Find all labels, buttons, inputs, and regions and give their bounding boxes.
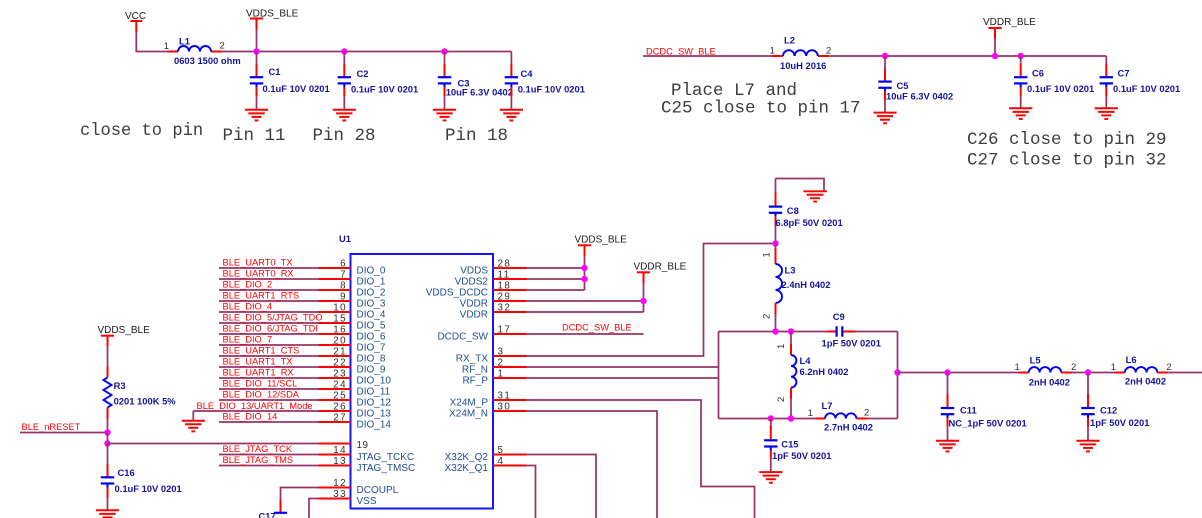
svg-text:DIO_12: DIO_12 [357, 397, 392, 408]
pin 16 (DIO_6) left of U1 [319, 325, 386, 343]
svg-text:DIO_8: DIO_8 [357, 353, 386, 364]
svg-text:DIO_3: DIO_3 [357, 298, 386, 309]
power symbol VCC [125, 11, 146, 32]
svg-text:BLE_DIO_2: BLE_DIO_2 [223, 280, 273, 290]
junction node C8/L3 [772, 240, 778, 246]
svg-text:BLE_JTAG_TCK: BLE_JTAG_TCK [223, 444, 293, 454]
capacitor C12 [1081, 373, 1149, 441]
svg-text:DIO_13: DIO_13 [357, 408, 392, 419]
svg-text:RF_P: RF_P [462, 375, 488, 386]
wire X24M_N [527, 411, 658, 518]
inductor L5 [1015, 354, 1077, 387]
svg-text:L1: L1 [179, 36, 190, 47]
junction node RF out [894, 369, 900, 375]
svg-text:DCDC_SW_BLE: DCDC_SW_BLE [562, 323, 632, 333]
pin 27 (DIO_14) left of U1 [319, 413, 392, 431]
svg-text:1: 1 [770, 46, 775, 57]
junction node pin19 [104, 440, 110, 446]
capacitor C4 [505, 52, 585, 110]
ground C11 [936, 441, 959, 452]
svg-text:26: 26 [333, 402, 347, 413]
svg-text:close to pin: close to pin [80, 122, 203, 141]
wire L2 to C7 [829, 55, 1106, 57]
pin 32 (VDDR) right of U1 [460, 303, 527, 321]
wire+net label BLE_JTAG_TMS [219, 455, 319, 465]
svg-text:2.7nH 0402: 2.7nH 0402 [824, 421, 873, 432]
junction node C15 [768, 415, 774, 421]
svg-text:L3: L3 [785, 265, 796, 276]
svg-text:DCDC_SW_BLE: DCDC_SW_BLE [646, 47, 716, 57]
svg-text:1pF 50V 0201: 1pF 50V 0201 [772, 450, 831, 461]
svg-text:RX_TX: RX_TX [456, 353, 489, 364]
svg-text:10uH 2016: 10uH 2016 [780, 60, 826, 71]
ground C15 [759, 472, 782, 483]
comment Pin 28 [313, 126, 376, 146]
svg-text:C26 close to pin 29: C26 close to pin 29 [967, 130, 1167, 150]
wire RF out to L5 [898, 372, 1019, 374]
svg-text:DCOUPL: DCOUPL [357, 485, 399, 496]
svg-text:VDDR_BLE: VDDR_BLE [983, 17, 1036, 28]
pin 6 (DIO_0) left of U1 [319, 259, 386, 277]
svg-text:DIO_10: DIO_10 [357, 375, 392, 386]
junction node L4 top [788, 328, 794, 334]
svg-text:X32K_Q1: X32K_Q1 [445, 463, 489, 474]
pin 30 (X24M_N) right of U1 [449, 402, 526, 420]
capacitor C17 [259, 510, 288, 518]
svg-text:DIO_6: DIO_6 [357, 331, 386, 342]
wire loop left [718, 332, 720, 419]
wire VDDR pins to rail [527, 283, 644, 312]
pin 8 (DIO_2) left of U1 [319, 281, 386, 299]
svg-text:X24M_P: X24M_P [450, 397, 489, 408]
svg-text:4: 4 [498, 456, 505, 467]
pin 4 (X32K_Q1) right of U1 [445, 456, 527, 474]
svg-text:6.8pF 50V 0201: 6.8pF 50V 0201 [776, 217, 843, 228]
wire+net label BLE_DIO_11/SCL [219, 379, 319, 389]
resistor R3 [104, 367, 177, 420]
junction node VDDS pin11 [581, 276, 587, 282]
comment C26 close to pin 29 [967, 130, 1167, 150]
inductor L1 [164, 36, 241, 67]
wire+net label BLE_DIO_14 [219, 412, 319, 422]
svg-text:C9: C9 [833, 311, 845, 322]
svg-text:0.1uF 10V 0201: 0.1uF 10V 0201 [351, 84, 418, 95]
svg-text:0.1uF 10V 0201: 0.1uF 10V 0201 [518, 84, 585, 95]
capacitor C3 [438, 52, 513, 110]
svg-text:C8: C8 [787, 205, 799, 216]
svg-text:U1: U1 [339, 233, 351, 244]
svg-text:32: 32 [498, 303, 512, 314]
junction node C2 [341, 48, 347, 54]
svg-text:14: 14 [333, 445, 347, 456]
svg-text:23: 23 [333, 369, 347, 380]
svg-text:10: 10 [333, 303, 347, 314]
ground C4 [500, 110, 523, 121]
svg-text:DIO_5: DIO_5 [357, 320, 386, 331]
svg-text:8: 8 [340, 281, 347, 292]
svg-text:0201 100K 5%: 0201 100K 5% [114, 396, 177, 407]
pin 15 (DIO_5) left of U1 [319, 314, 386, 332]
capacitor C16 [101, 444, 182, 511]
power symbol VDDS_BLE [246, 9, 299, 52]
svg-text:Pin 28: Pin 28 [313, 126, 376, 146]
pin 19 number inside box [357, 440, 369, 451]
pin 18 (VDDS_DCDC) right of U1 [426, 281, 527, 299]
svg-text:2: 2 [864, 408, 869, 419]
inductor L3 [762, 244, 831, 332]
svg-text:12: 12 [333, 478, 347, 489]
wire VSS down [309, 499, 319, 518]
svg-text:DIO_4: DIO_4 [357, 309, 386, 320]
svg-text:L2: L2 [784, 35, 795, 46]
svg-text:BLE_DIO_6/JTAG_TDI: BLE_DIO_6/JTAG_TDI [223, 324, 318, 334]
pin 22 (DIO_9) left of U1 [319, 358, 386, 376]
svg-text:BLE_DIO_4: BLE_DIO_4 [223, 302, 273, 312]
junction node C11 [944, 369, 950, 375]
junction node C1 [253, 48, 259, 54]
wire+net label BLE_UART1_TX [219, 357, 319, 367]
junction node L4 bottom [788, 415, 794, 421]
ground C7 [1095, 108, 1118, 119]
svg-text:Pin 18: Pin 18 [445, 126, 508, 146]
svg-text:C25 close to pin 17: C25 close to pin 17 [661, 99, 861, 119]
svg-text:VDDS_BLE: VDDS_BLE [575, 235, 628, 246]
junction node BLE_nRESET [104, 429, 110, 435]
pin 29 (VDDR) right of U1 [460, 292, 527, 310]
comment Place L7 and [671, 81, 797, 101]
pin 2 (RF_N) right of U1 [462, 358, 527, 376]
wire X32K_Q2 [527, 455, 597, 518]
svg-text:C7: C7 [1118, 68, 1130, 79]
svg-text:BLE_UART1_TX: BLE_UART1_TX [223, 357, 293, 367]
svg-text:20: 20 [333, 336, 347, 347]
svg-text:VDDS_DCDC: VDDS_DCDC [426, 287, 488, 298]
comment Pin 11 [223, 126, 286, 146]
svg-text:DCDC_SW: DCDC_SW [437, 331, 488, 342]
junction node C12 [1085, 369, 1091, 375]
pin 5 (X32K_Q2) right of U1 [445, 445, 527, 463]
pin 1 (RF_P) right of U1 [462, 369, 526, 387]
svg-text:2nH 0402: 2nH 0402 [1125, 376, 1166, 387]
wire RF_P [527, 377, 719, 379]
comment C27 close to pin 32 [967, 151, 1167, 171]
svg-text:VDDS: VDDS [460, 265, 488, 276]
pin 24 (DIO_11) left of U1 [319, 380, 391, 398]
wire RX_TX to C8 node [527, 244, 776, 357]
capacitor C6 [1014, 56, 1094, 108]
junction node C6 [1018, 53, 1024, 59]
junction node C3 [441, 48, 447, 54]
svg-text:X32K_Q2: X32K_Q2 [445, 452, 489, 463]
svg-text:2: 2 [220, 41, 225, 52]
pin 20 (DIO_7) left of U1 [319, 336, 386, 354]
wire+net label BLE_DIO_7 [219, 335, 319, 345]
wire+net label BLE_DIO_4 [219, 302, 319, 312]
wire+net label BLE_DIO_5/JTAG_TDO [219, 313, 323, 323]
svg-text:1pF 50V 0201: 1pF 50V 0201 [1090, 417, 1149, 428]
svg-text:VSS: VSS [357, 496, 377, 507]
svg-text:C12: C12 [1100, 405, 1117, 416]
capacitor C8 [769, 179, 843, 244]
svg-text:1pF 50V 0201: 1pF 50V 0201 [822, 337, 881, 348]
pin 28 (VDDS) right of U1 [460, 259, 526, 277]
svg-text:Pin 11: Pin 11 [223, 126, 286, 146]
svg-text:2: 2 [776, 397, 787, 402]
svg-text:18: 18 [498, 281, 512, 292]
comment close to pin [80, 122, 203, 141]
svg-text:DIO_0: DIO_0 [357, 265, 386, 276]
inductor L6 [1111, 354, 1172, 387]
svg-text:16: 16 [333, 325, 347, 336]
svg-text:BLE_UART0_RX: BLE_UART0_RX [223, 269, 294, 279]
ground C6 [1009, 108, 1032, 119]
svg-text:DIO_2: DIO_2 [357, 287, 386, 298]
svg-text:RF_N: RF_N [462, 364, 488, 375]
svg-text:VCC: VCC [125, 11, 146, 22]
pin 23 (DIO_10) left of U1 [319, 369, 392, 387]
svg-text:3: 3 [498, 347, 505, 358]
svg-text:5: 5 [498, 445, 505, 456]
wire VDDS pins to rail [527, 254, 585, 290]
wire+net label BLE_UART1_CTS [219, 346, 319, 356]
svg-text:6.2nH 0402: 6.2nH 0402 [800, 366, 849, 377]
wire X24M_P [527, 400, 755, 518]
capacitor C2 [338, 52, 419, 110]
svg-text:25: 25 [333, 391, 347, 402]
svg-text:BLE_DIO_5/JTAG_TDO: BLE_DIO_5/JTAG_TDO [223, 313, 323, 323]
svg-text:2.4nH 0402: 2.4nH 0402 [782, 279, 831, 290]
capacitor C15 [764, 419, 831, 473]
svg-text:BLE_DIO_7: BLE_DIO_7 [223, 335, 273, 345]
svg-text:C15: C15 [781, 439, 798, 450]
svg-text:0.1uF 10V 0201: 0.1uF 10V 0201 [263, 83, 330, 94]
ground C3 [433, 110, 456, 121]
net label BLE_nRESET [22, 422, 81, 432]
power symbol VDDR_BLE (top) [983, 17, 1036, 56]
svg-text:BLE_JTAG_TMS: BLE_JTAG_TMS [223, 455, 294, 465]
svg-text:9: 9 [340, 292, 347, 303]
svg-text:13: 13 [333, 456, 347, 467]
svg-text:DIO_7: DIO_7 [357, 342, 386, 353]
svg-text:DIO_9: DIO_9 [357, 364, 386, 375]
junction node L3/loop [772, 328, 778, 334]
svg-text:BLE_UART1_CTS: BLE_UART1_CTS [223, 346, 300, 356]
svg-text:0603 1500 ohm: 0603 1500 ohm [174, 55, 241, 66]
svg-text:1: 1 [808, 408, 813, 419]
comment C25 close to pin 17 [661, 99, 861, 119]
junction node VDDS pin28 [581, 265, 587, 271]
svg-text:0.1uF 10V 0201: 0.1uF 10V 0201 [1027, 83, 1094, 94]
net label DCDC_SW_BLE (top) [646, 47, 716, 57]
svg-text:L5: L5 [1030, 354, 1041, 365]
svg-text:DIO_14: DIO_14 [357, 419, 392, 430]
svg-text:L7: L7 [822, 400, 833, 411]
ground on BLE_DIO_13 [182, 411, 205, 431]
wire L6 to edge [1168, 372, 1202, 374]
svg-text:JTAG_TMSC: JTAG_TMSC [357, 463, 416, 474]
ground C2 [333, 110, 356, 121]
svg-text:30: 30 [498, 402, 512, 413]
svg-text:1: 1 [1111, 362, 1116, 373]
svg-text:C5: C5 [897, 80, 909, 91]
svg-text:BLE_DIO_11/SCL: BLE_DIO_11/SCL [223, 379, 298, 389]
svg-text:1: 1 [164, 41, 169, 52]
wire BLE_nRESET [20, 432, 108, 434]
svg-text:2: 2 [762, 314, 773, 319]
svg-text:VDDS2: VDDS2 [455, 276, 489, 287]
svg-text:2: 2 [1071, 362, 1076, 373]
junction node VDDR pin29 [640, 298, 646, 304]
pin 31 (X24M_P) right of U1 [450, 391, 527, 409]
svg-text:1: 1 [762, 252, 773, 257]
svg-text:BLE_UART1_RX: BLE_UART1_RX [223, 368, 294, 378]
power symbol VDDS_BLE (mid-left) [98, 325, 151, 347]
svg-text:BLE_nRESET: BLE_nRESET [22, 422, 81, 432]
wire VCC to L1 [136, 32, 167, 52]
pin 3 (RX_TX) right of U1 [456, 347, 527, 365]
pin 21 (DIO_8) left of U1 [319, 347, 386, 365]
pin 7 (DIO_1) left of U1 [319, 270, 386, 288]
svg-text:27: 27 [333, 413, 347, 424]
wire+net label BLE_UART0_TX [219, 258, 319, 268]
svg-text:29: 29 [498, 292, 512, 303]
pin 9 (DIO_3) left of U1 [319, 292, 386, 310]
svg-text:L6: L6 [1126, 354, 1137, 365]
svg-text:C11: C11 [960, 405, 977, 416]
svg-text:DIO_1: DIO_1 [357, 276, 386, 287]
svg-text:10uF 6.3V 0402: 10uF 6.3V 0402 [446, 87, 513, 98]
svg-text:21: 21 [333, 347, 347, 358]
pin 11 (VDDS2) right of U1 [455, 270, 527, 288]
svg-text:19: 19 [357, 440, 369, 451]
wire loop top [719, 331, 898, 333]
svg-text:BLE_DIO_13/UART1_Mode: BLE_DIO_13/UART1_Mode [197, 401, 313, 411]
svg-text:BLE_UART1_RTS: BLE_UART1_RTS [223, 291, 300, 301]
wire L5 to L6 [1072, 372, 1115, 374]
svg-text:L4: L4 [800, 355, 812, 366]
svg-text:1: 1 [498, 369, 505, 380]
wire VDDS_BLE rail [222, 51, 511, 53]
ground above C8 [776, 179, 828, 202]
net label DCDC_SW_BLE (U1) [562, 323, 632, 333]
comment Pin 18 [445, 126, 508, 146]
svg-text:10uF 6.3V 0402: 10uF 6.3V 0402 [886, 91, 953, 102]
svg-text:C16: C16 [118, 467, 135, 478]
svg-text:NC_1pF 50V 0201: NC_1pF 50V 0201 [949, 418, 1027, 429]
svg-text:2: 2 [826, 46, 831, 57]
svg-text:BLE_DIO_12/SDA: BLE_DIO_12/SDA [223, 390, 300, 400]
capacitor C5 [878, 56, 953, 113]
svg-text:BLE_UART0_TX: BLE_UART0_TX [223, 258, 293, 268]
svg-text:JTAG_TCKC: JTAG_TCKC [357, 452, 415, 463]
wire+net label BLE_DIO_6/JTAG_TDI [219, 324, 319, 334]
svg-text:17: 17 [498, 325, 512, 336]
svg-text:C1: C1 [269, 66, 281, 77]
svg-text:C4: C4 [521, 68, 534, 79]
svg-text:C6: C6 [1032, 68, 1044, 79]
wire loop bottom [719, 418, 898, 420]
wire X32K_Q1 [527, 466, 536, 518]
pin 33 (VSS) left of U1 [319, 489, 377, 507]
svg-text:0.1uF 10V 0201: 0.1uF 10V 0201 [115, 483, 182, 494]
svg-text:VDDR_BLE: VDDR_BLE [634, 262, 687, 273]
wire loop right [897, 332, 899, 419]
svg-text:VDDR: VDDR [460, 309, 488, 320]
svg-text:VDDS_BLE: VDDS_BLE [246, 9, 299, 20]
wire+net label BLE_DIO_13/UART1_Mode [193, 401, 318, 411]
wire+net label BLE_UART1_RTS [219, 291, 319, 301]
svg-text:VDDS_BLE: VDDS_BLE [98, 325, 151, 336]
svg-text:22: 22 [333, 358, 347, 369]
svg-text:0.1uF 10V 0201: 0.1uF 10V 0201 [1113, 83, 1180, 94]
svg-text:1: 1 [1015, 362, 1020, 373]
svg-text:6: 6 [340, 259, 347, 270]
wire+net label BLE_DIO_12/SDA [219, 390, 319, 400]
op-amp U1 body [339, 233, 493, 509]
inductor L7 [808, 400, 873, 432]
svg-text:C27 close to pin 32: C27 close to pin 32 [967, 151, 1167, 171]
wire node to node [107, 433, 109, 444]
power symbol VDDS_BLE (U1) [575, 235, 628, 257]
inductor L4 [776, 332, 849, 419]
wire+net label BLE_UART1_RX [219, 368, 319, 378]
svg-text:33: 33 [333, 489, 347, 500]
svg-text:28: 28 [498, 259, 512, 270]
capacitor C11 [941, 373, 1027, 441]
svg-text:C2: C2 [357, 68, 369, 79]
svg-text:BLE_DIO_14: BLE_DIO_14 [223, 412, 278, 422]
wire+net label BLE_JTAG_TCK [219, 444, 319, 454]
svg-text:11: 11 [498, 270, 511, 281]
power symbol VDDR_BLE (U1) [634, 262, 687, 284]
junction node C5 [882, 53, 888, 59]
svg-text:DIO_11: DIO_11 [357, 386, 391, 397]
svg-text:2nH 0402: 2nH 0402 [1029, 376, 1070, 387]
svg-text:C17: C17 [259, 510, 276, 518]
junction node VDDR rail [992, 53, 998, 59]
wire DCDC_SW_BLE to L2 [643, 55, 772, 57]
wire RF_N [527, 366, 719, 368]
wire+net label BLE_UART0_RX [219, 269, 319, 279]
svg-text:2: 2 [498, 358, 505, 369]
pin 25 (DIO_12) left of U1 [319, 391, 392, 409]
wire DCDC_SW [527, 333, 644, 335]
svg-text:15: 15 [333, 314, 347, 325]
pin 19 (pin19) left of U1 [319, 443, 351, 445]
pin 10 (DIO_4) left of U1 [319, 303, 386, 321]
pin 26 (DIO_13) left of U1 [319, 402, 392, 420]
svg-text:31: 31 [498, 391, 512, 402]
ground C16 [96, 510, 119, 518]
ground C12 [1076, 441, 1099, 452]
svg-text:VDDR: VDDR [460, 298, 488, 309]
capacitor C7 [1100, 56, 1181, 108]
svg-text:1: 1 [776, 344, 787, 349]
pin 12 (DCOUPL) left of U1 [319, 478, 399, 496]
svg-text:2: 2 [1166, 362, 1171, 373]
wire VDDS_BLE to R3 [107, 347, 109, 367]
capacitor C9 [822, 311, 881, 348]
svg-text:R3: R3 [114, 380, 126, 391]
inductor L2 [770, 35, 832, 72]
wire DCOUPL to C17 [281, 488, 319, 513]
svg-text:X24M_N: X24M_N [449, 408, 488, 419]
capacitor C1 [250, 52, 330, 110]
pin 17 (DCDC_SW) right of U1 [437, 325, 526, 343]
wire node to pin 19 [108, 443, 319, 445]
wire R3 to node [107, 419, 109, 433]
pin 13 (JTAG_TMSC) left of U1 [319, 456, 416, 474]
